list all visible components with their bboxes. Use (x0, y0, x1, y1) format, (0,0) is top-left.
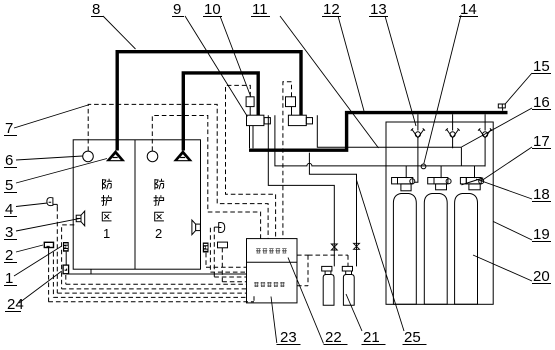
alarm bell 2 (214, 222, 224, 232)
svg-text:21: 21 (363, 329, 380, 346)
leader 20 (473, 255, 532, 281)
row wire y297 (53, 296, 246, 298)
svg-text:22: 22 (325, 329, 342, 346)
svg-text:18: 18 (533, 186, 550, 203)
manual button 2 (218, 242, 228, 248)
svg-text:19: 19 (533, 226, 550, 243)
pipe 8 branch B (nozzle2 to valve1) (183, 73, 258, 151)
selector valve 2 (286, 97, 313, 126)
zone 1 label char 防 (103, 179, 112, 190)
leader 4 (16, 203, 48, 207)
svg-text:2: 2 (155, 226, 162, 241)
leader 18 (476, 179, 532, 199)
svg-text:15: 15 (533, 58, 550, 75)
leader 24 (19, 271, 62, 303)
cylinder 3 (455, 178, 484, 305)
leader 1 (14, 246, 62, 276)
nozzle 2 (173, 150, 192, 161)
zone 2 label char 区 (155, 212, 164, 221)
svg-text:17: 17 (533, 133, 550, 150)
valve2 outlet pipe b to pilot line (317, 115, 461, 147)
starter bottle 1 (322, 266, 334, 305)
row wire y293 (57, 292, 246, 294)
row wire y289 (62, 288, 247, 290)
bell1 wire (56, 207, 58, 293)
speaker 2 (192, 220, 201, 235)
valve1 outlet pipe to bottle 1 (268, 115, 334, 266)
header branch to bottle 2 (309, 153, 356, 267)
svg-text:1: 1 (5, 270, 13, 287)
ball valve on pilot line 2 (354, 243, 360, 249)
leader 6 (16, 156, 83, 160)
zone 1 label char 护 (101, 195, 111, 206)
svg-text:10: 10 (204, 1, 221, 18)
pipe header and manifold (249, 113, 508, 151)
starter bottle 2 (342, 266, 354, 305)
row wire y302 (48, 296, 254, 302)
leader 5 (16, 159, 107, 184)
THICK PIPES (117, 52, 507, 151)
SOLID THIN GROUP (66, 114, 493, 304)
leader 8 (103, 16, 136, 49)
wire stub valve1 b (252, 126, 254, 149)
check valve 3 (478, 128, 492, 137)
leader 14 (424, 15, 461, 164)
station2 wire (206, 253, 247, 267)
selector valve 1 (246, 97, 270, 126)
ball valve on pilot line 1 (331, 244, 337, 250)
zone 2 label char 防 (155, 179, 164, 190)
svg-text:9: 9 (173, 1, 181, 18)
detector loop 2 wire (152, 116, 260, 239)
cylinder rack (386, 122, 493, 304)
stub below zone (90, 269, 92, 274)
leader 16 (462, 108, 533, 147)
pilot lateral drops to cylinder valves (406, 166, 474, 178)
svg-text:8: 8 (92, 1, 100, 18)
manual station 2 (hatched) (203, 243, 209, 253)
leader 19 (493, 222, 532, 241)
svg-text:14: 14 (460, 1, 477, 18)
wire stub valve1 a (249, 126, 251, 149)
check valve 2 drop lines (452, 114, 454, 148)
cylinder 2 (424, 178, 451, 305)
svg-text:13: 13 (370, 1, 387, 18)
check valve 2 (446, 128, 460, 137)
solenoid 2 (286, 97, 296, 107)
speaker2 wire (210, 228, 246, 272)
DASHED GROUP (48, 82, 348, 302)
zone 2 label char 护 (154, 195, 164, 206)
solid row wire y274 (66, 273, 246, 275)
leader 23 (271, 297, 277, 344)
svg-text:16: 16 (533, 94, 550, 111)
junction circle node (leader 14 target) (421, 164, 426, 169)
leader 15 (505, 73, 532, 104)
detector loop 1 wire (corner is leader-7 target) (88, 104, 268, 238)
button1 wire a (48, 260, 50, 302)
row wire y284 (66, 283, 247, 285)
svg-text:25: 25 (404, 329, 421, 346)
leader 3 (16, 218, 80, 231)
svg-text:23: 23 (280, 329, 297, 346)
leader 21 (346, 294, 362, 331)
protection zone rectangle (73, 140, 200, 269)
cylinder 3 release lever (461, 178, 483, 185)
COMPONENTS (83, 151, 158, 162)
zone 1 label char 区 (102, 212, 111, 221)
speaker1 wire (62, 225, 75, 289)
svg-text:4: 4 (5, 201, 13, 218)
panel text line 1 (报警控制屏) (256, 249, 287, 253)
zone divider wall (134, 140, 136, 269)
svg-text:11: 11 (252, 1, 268, 18)
leader 11 (280, 16, 379, 148)
svg-text:7: 7 (5, 120, 13, 137)
button2 wire (222, 248, 246, 282)
smoke detector zone2 (147, 151, 158, 162)
svg-text:2: 2 (5, 247, 13, 264)
panel to starter bottles wire (297, 255, 308, 286)
leader 17 (482, 147, 533, 181)
svg-text:24: 24 (7, 296, 24, 313)
svg-text:1: 1 (103, 226, 110, 241)
pipe 8 branch A (nozzle1 to valve2) (117, 52, 301, 151)
wire to bottle2 valve (308, 255, 348, 266)
side square valve1 (264, 118, 270, 124)
pilot line drop (460, 147, 462, 166)
cylinder 1 (392, 178, 417, 305)
pressure switch 15 (498, 104, 505, 111)
emergency stop 24 (63, 265, 69, 274)
button1 wire b (52, 252, 54, 297)
manual station 1 (hatched) (63, 242, 69, 265)
solenoid 1 control wire (226, 85, 276, 238)
solenoid 1 (246, 97, 254, 107)
leader 22 (288, 258, 324, 344)
bell2 wire (214, 227, 246, 277)
svg-text:6: 6 (5, 152, 13, 169)
solenoid 2 control wire (283, 82, 292, 239)
svg-text:5: 5 (5, 177, 13, 194)
leader 9 (185, 16, 247, 117)
leader 10 (220, 16, 251, 96)
leader 7 (14, 105, 88, 128)
leader 12 (338, 16, 364, 111)
svg-text:20: 20 (533, 268, 550, 285)
control panel box (247, 239, 298, 303)
stop24 wire below (65, 275, 67, 284)
leader 25 (357, 180, 405, 331)
check valve 1 (411, 128, 425, 137)
alarm bell 1 (47, 198, 57, 207)
check valve 1 drop lines (415, 114, 418, 182)
check valve 3 drop lines (484, 114, 486, 166)
panel text line 2 (灭火控制屏) (254, 282, 285, 286)
speaker 1 (76, 211, 85, 226)
nozzle 1 (106, 150, 125, 161)
svg-text:3: 3 (5, 224, 13, 241)
svg-text:12: 12 (323, 1, 340, 18)
leader 13 (385, 16, 416, 126)
valve1 outlet pipe b long lateral to cylinders (275, 115, 485, 166)
smoke detector zone1 (83, 151, 94, 162)
leader 2 (16, 245, 43, 252)
manual button 1 (44, 242, 53, 260)
side square valve2 (306, 118, 312, 124)
